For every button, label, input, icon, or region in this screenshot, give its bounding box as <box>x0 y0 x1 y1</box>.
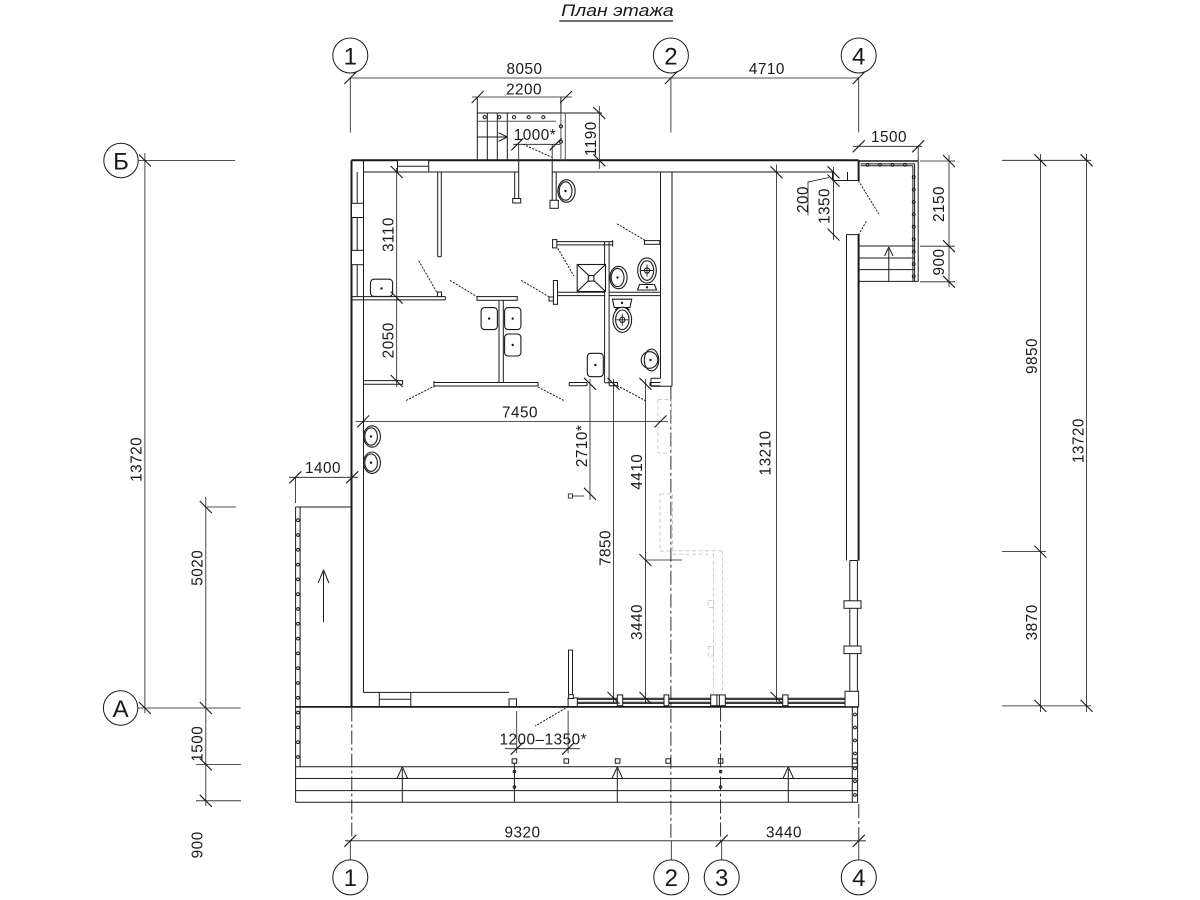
svg-text:5020: 5020 <box>190 550 207 586</box>
east glazing post 1 <box>844 601 861 609</box>
east glazing <box>850 561 858 692</box>
grid line stubs top <box>350 78 858 133</box>
door leaf east entrance small <box>859 221 867 235</box>
axis 4 lower <box>858 804 860 841</box>
svg-text:3870: 3870 <box>1024 604 1041 640</box>
terrace walk arrow left strip <box>318 570 329 622</box>
south glazing post 3 <box>783 695 788 706</box>
grid circle 2 top <box>653 38 688 73</box>
svg-text:А: А <box>113 696 129 723</box>
DOORS <box>407 144 879 726</box>
terrace top edge left strip <box>296 506 352 508</box>
partition cross piece <box>549 281 558 305</box>
wall left middle line upper <box>356 172 358 297</box>
window W2 left wall <box>352 203 364 217</box>
svg-text:3110: 3110 <box>381 217 398 252</box>
basin entry WC <box>558 180 575 203</box>
porch right edge <box>917 161 919 281</box>
terrace door post <box>568 695 577 707</box>
dim 2200 <box>472 82 572 104</box>
svg-text:4: 4 <box>852 865 865 892</box>
svg-text:2710*: 2710* <box>574 425 591 467</box>
cistern lower WC <box>613 299 632 307</box>
svg-text:2: 2 <box>665 865 678 892</box>
svg-text:13720: 13720 <box>129 437 146 482</box>
door leaf hall-left <box>450 281 477 297</box>
south glazing post 2 <box>664 695 669 706</box>
wall B horizontal mid <box>558 292 661 295</box>
cabinet 3 <box>505 334 521 356</box>
porch bottom edge <box>859 280 918 282</box>
door leaf entry 1000 <box>523 144 551 157</box>
window W1 top wall <box>398 160 429 172</box>
svg-text:7450: 7450 <box>502 404 538 421</box>
grid circle 4 top <box>841 38 876 73</box>
dim 1190 <box>583 106 605 169</box>
dashed bump 1 <box>708 600 713 607</box>
svg-text:1400: 1400 <box>305 460 341 477</box>
FIXTURES <box>364 180 659 474</box>
svg-text:200: 200 <box>795 186 812 213</box>
porch stair treads <box>859 246 915 270</box>
title План этажа <box>559 1 673 21</box>
axis line А <box>138 702 241 714</box>
svg-text:900: 900 <box>190 831 207 858</box>
terrace band lines <box>296 767 859 803</box>
svg-text:1000*: 1000* <box>514 127 556 144</box>
grid circle 4 bottom <box>841 860 876 895</box>
porch top edge <box>859 160 919 162</box>
svg-text:3440: 3440 <box>629 604 646 640</box>
door leaf terrace <box>535 707 568 726</box>
door sill segments y383 <box>569 383 587 386</box>
hall basin 2 <box>364 452 381 473</box>
wall top exterior outer face <box>352 159 859 161</box>
window W3 left wall <box>352 250 364 264</box>
cabinet 4 shower room <box>587 353 603 376</box>
dim 4410 / 3440 <box>639 378 682 704</box>
grid circle 1 top <box>333 38 368 73</box>
axis 3 posts circles <box>719 770 722 788</box>
dim 2710* <box>568 378 596 500</box>
svg-text:2200: 2200 <box>506 82 542 99</box>
svg-text:4710: 4710 <box>749 61 785 78</box>
porch inner rail top <box>861 164 915 166</box>
dim 9850 / 3870 right column <box>1002 154 1091 712</box>
toilet lower WC <box>613 307 632 332</box>
partition A horizontal left <box>352 292 446 300</box>
south glazing double post at axis 3 <box>711 695 726 706</box>
wall left exterior outer face <box>351 160 353 706</box>
partition T-cap <box>477 297 517 301</box>
axis 3 lower <box>720 708 722 842</box>
dim 8050-4710 line <box>344 72 864 84</box>
svg-text:Б: Б <box>113 148 129 175</box>
svg-text:1500: 1500 <box>871 129 907 146</box>
svg-text:1: 1 <box>344 43 357 70</box>
svg-text:План этажа: План этажа <box>561 1 674 20</box>
dim 9320 / 3440 bottom <box>344 835 866 847</box>
sink room1 rounded <box>371 279 393 296</box>
svg-text:1500: 1500 <box>190 726 207 762</box>
svg-text:1190: 1190 <box>583 121 600 156</box>
dim 7850 <box>608 378 620 704</box>
terrace left outer edge <box>295 507 297 802</box>
svg-text:1: 1 <box>344 865 357 892</box>
south glazing post 1 <box>617 695 622 706</box>
wall left exterior inner face <box>363 172 365 692</box>
hall basin 1 <box>364 426 381 447</box>
svg-text:13210: 13210 <box>758 430 775 475</box>
DIMENSIONS <box>129 61 1093 858</box>
svg-text:1200–1350*: 1200–1350* <box>500 731 588 748</box>
stair balusters right column <box>559 125 562 144</box>
cabinet 1 <box>481 308 497 330</box>
window W4 bottom wall <box>379 692 411 706</box>
terrace right edge <box>852 707 857 803</box>
door leaf room1 <box>419 261 437 292</box>
hall interior wall stub near terrace door <box>569 650 573 694</box>
stair balusters top row <box>483 116 545 119</box>
TERRACE <box>296 507 859 802</box>
wall bottom inner face segments <box>364 691 510 693</box>
porch balusters right column <box>912 176 915 278</box>
svg-text:1350: 1350 <box>817 188 834 224</box>
svg-text:3: 3 <box>715 865 728 892</box>
partition P2 horizontal <box>553 240 613 248</box>
grid circle Б left <box>104 143 138 177</box>
stair outline <box>477 97 602 160</box>
dim 200 / 1350 entry door <box>808 166 840 240</box>
svg-text:4: 4 <box>852 43 865 70</box>
grid line stubs bottom <box>350 841 859 860</box>
GRID CIRCLES <box>103 38 876 895</box>
entry jamb stub right <box>550 172 558 208</box>
cabinet 2 <box>505 308 521 330</box>
corridor wall at axis 2 <box>651 172 672 386</box>
terrace arrows <box>397 767 408 802</box>
door sill WC upper <box>645 241 660 245</box>
dim 1000* <box>511 127 561 160</box>
shower tray <box>577 265 605 292</box>
dashed rect upper <box>658 400 672 454</box>
svg-text:9320: 9320 <box>504 825 540 842</box>
svg-text:900: 900 <box>931 248 948 275</box>
stair direction arrow <box>478 133 508 142</box>
entry door step east <box>833 160 859 181</box>
wall top exterior inner face <box>364 160 833 172</box>
wall bottom exterior outer face <box>296 706 859 708</box>
dim 13720 right <box>1081 154 1093 712</box>
dim 5020/1500/900 left column <box>196 497 241 807</box>
entry jamb stub left <box>513 172 521 203</box>
dashed bump 2 <box>708 647 713 656</box>
south-east corner post <box>845 691 859 706</box>
axis line Б <box>138 155 235 167</box>
pedestal basin upper WC <box>610 266 627 288</box>
svg-text:4410: 4410 <box>629 454 646 490</box>
grid circle А left <box>103 691 137 725</box>
wall east solid below door <box>847 235 859 561</box>
south glazing rails <box>577 698 845 703</box>
terrace left inner rail <box>299 507 301 767</box>
door leaf WC upper <box>617 224 645 241</box>
partition vertical below T-cap <box>499 300 503 383</box>
door jamb top wall left of entry <box>518 160 520 172</box>
terrace right balusters <box>854 713 857 796</box>
dim 7450 <box>356 404 668 427</box>
svg-text:2150: 2150 <box>931 186 948 222</box>
door leaf shower room <box>558 249 574 276</box>
door leaf WC lower <box>618 386 646 401</box>
svg-text:2: 2 <box>664 43 677 70</box>
dim 1400 <box>289 460 358 503</box>
porch inner rail right <box>913 164 915 282</box>
terrace post verticals <box>513 763 516 801</box>
AXES dash-dot <box>352 387 859 841</box>
terrace left balusters <box>297 519 300 759</box>
svg-text:3440: 3440 <box>766 825 802 842</box>
axis 2 lower <box>670 387 672 841</box>
terrace post squares row <box>512 759 857 763</box>
grid circle 1 bottom <box>333 860 368 895</box>
svg-text:13720: 13720 <box>1070 418 1087 463</box>
stair risers <box>487 113 507 160</box>
porch stair arrow <box>885 247 893 281</box>
door leaf hall west <box>407 386 435 400</box>
svg-text:8050: 8050 <box>506 61 542 78</box>
hall south-west wall stub <box>364 380 403 384</box>
dashed corridor vertical <box>714 551 723 695</box>
partition P3 vertical <box>605 242 610 383</box>
grid circle 2 bottom <box>654 860 689 895</box>
dashed corridor horizontal <box>673 551 723 554</box>
partition P1 top-left room <box>438 172 442 257</box>
grid circle 3 bottom <box>704 860 739 895</box>
STAIR TOP <box>477 97 602 160</box>
porch balusters top row <box>866 163 906 166</box>
east glazing post 2 <box>844 646 861 654</box>
svg-text:7850: 7850 <box>597 530 614 566</box>
round basin lower WC <box>641 349 659 371</box>
dim 13720 left <box>139 153 151 714</box>
door leaf east entrance main <box>859 181 879 214</box>
dim 2150 / 900 right of porch <box>920 155 955 288</box>
svg-text:9850: 9850 <box>1024 338 1041 374</box>
dim 1500 top right <box>853 129 925 161</box>
door leaf cabinets room <box>538 387 565 401</box>
door jamb top wall right of entry <box>551 160 553 172</box>
dim 1200-1350* <box>500 711 588 755</box>
axis 1 lower <box>351 708 353 842</box>
svg-text:2050: 2050 <box>381 322 398 358</box>
dim 13210 <box>771 165 783 704</box>
dim 3110 / 2050 interior left <box>391 166 403 387</box>
HIDDEN dashed outline <box>658 400 722 695</box>
terrace door jamb step <box>509 699 517 707</box>
stair inner rail <box>477 120 556 122</box>
toilet upper WC <box>638 258 657 290</box>
dashed rect mid <box>660 494 673 551</box>
wall C bottom of cabinets room <box>434 381 538 388</box>
stair landing right rail <box>561 113 565 160</box>
door leaf hall-right <box>522 281 550 298</box>
PORCH RIGHT <box>859 161 919 281</box>
